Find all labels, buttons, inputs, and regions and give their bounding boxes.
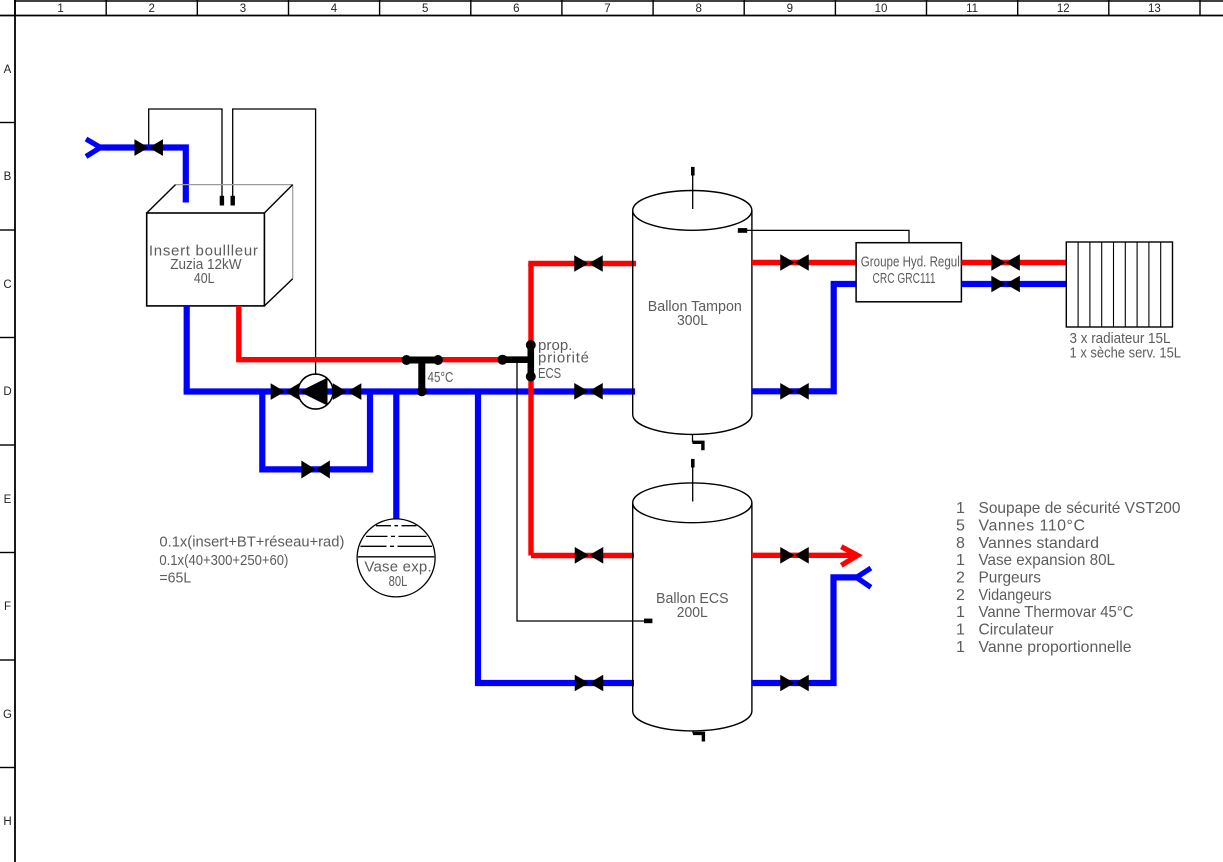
control line valve-to-boiler sensor [149,109,222,198]
svg-text:200L: 200L [677,604,708,621]
valve DHW-in blue [575,675,604,692]
sheet border left vertical line [14,0,16,862]
svg-text:Vidangeurs: Vidangeurs [979,587,1052,604]
svg-text:7: 7 [604,3,610,15]
svg-text:4: 4 [331,3,338,15]
svg-text:2: 2 [956,570,965,587]
DHW tank air vent tip [691,459,695,468]
svg-text:Vannes standard: Vannes standard [979,535,1100,552]
valve before buffer on main blue [574,383,603,400]
svg-text:A: A [4,64,12,76]
sheet border ruler bottom line [0,15,1223,17]
boiler top-right diagonal edge [264,185,292,213]
svg-text:1: 1 [956,622,965,639]
svg-text:45°C: 45°C [428,369,454,386]
svg-text:3: 3 [240,3,246,15]
svg-text:8: 8 [956,535,965,552]
svg-text:Vannes 110°C: Vannes 110°C [979,518,1086,535]
boiler top face back edge (gray) [176,184,293,186]
boiler top-left diagonal edge [147,185,176,213]
svg-text:13: 13 [1148,3,1161,15]
svg-text:1: 1 [57,3,63,15]
buffer tank drain line [692,434,694,442]
hydraulic regulator unit [856,243,961,302]
buffer tank body [633,191,752,435]
circulator pump U1 [298,374,333,409]
row letters A-H [3,64,12,828]
expansion vessel [357,519,435,597]
svg-text:B: B [4,171,12,183]
sheet border top edge [15,0,1223,2]
svg-text:2: 2 [956,587,965,604]
svg-text:300L: 300L [677,312,708,329]
control line boiler-to-pump [233,109,316,375]
svg-text:Purgeurs: Purgeurs [979,570,1042,587]
sensor line buffer tank to regulator [747,230,909,242]
valve buffer-out blue [780,383,809,400]
svg-text:5: 5 [956,518,965,535]
svg-text:Vanne proportionnelle: Vanne proportionnelle [979,639,1132,656]
buffer tank drain hook [693,442,703,450]
boiler sensor stub 2 [231,196,235,206]
svg-text:1: 1 [956,639,965,656]
valve buffer-out red [780,254,809,271]
svg-text:1: 1 [956,500,965,517]
valve cold-inlet blue [780,675,809,692]
svg-text:11: 11 [966,3,978,15]
blue cold water inlet pipe [752,577,858,683]
valve left of pump [271,383,300,400]
DHW tank air vent [692,468,694,502]
red DHW outlet pipe [752,553,853,558]
red branch to buffer tank [528,261,636,266]
svg-text:40L: 40L [194,270,215,287]
blue pipe radiator to regulator [961,281,1066,287]
svg-text:1 x sèche serv. 15L: 1 x sèche serv. 15L [1070,345,1182,362]
ruler column dividers [15,0,1200,16]
svg-text:Soupape de sécurité VST200: Soupape de sécurité VST200 [979,500,1181,517]
svg-text:D: D [3,386,11,398]
left margin row ticks [0,123,15,768]
boiler front face [147,213,265,306]
priority sensor line to DHW tank [517,361,646,621]
network supply Y-tail symbol [86,139,101,157]
valve on supply pipe [134,139,163,156]
cold water inlet Y-tail [856,568,871,587]
svg-text:5: 5 [422,3,428,15]
svg-text:Circulateur: Circulateur [979,622,1055,639]
red pipe buffer to regulator [752,260,856,265]
bill of materials legend [956,500,1181,656]
red flow pipe from boiler bottom [239,306,531,360]
boiler back-right vertical edge (gray) [292,185,294,279]
valve radiator red [991,254,1020,271]
buffer tank air vent [692,175,694,209]
buffer tank sensor tip [738,228,747,233]
red branch to DHW tank [531,553,634,558]
svg-text:C: C [3,279,11,291]
boiler bottom-right diagonal edge [264,279,292,306]
svg-text:80L: 80L [389,573,408,590]
thermostatic valve 45C tee bar [402,355,444,396]
valve on red branch to DHW tank [575,547,604,564]
valve right of pump [333,383,362,400]
svg-text:CRC GRC111: CRC GRC111 [873,270,936,287]
svg-text:Vase expansion 80L: Vase expansion 80L [979,552,1116,569]
svg-text:12: 12 [1057,3,1070,15]
svg-text:10: 10 [875,3,888,15]
radiator [1066,242,1172,327]
priority sensor tip [644,619,652,624]
svg-text:6: 6 [513,3,519,15]
buffer tank air vent tip [691,167,695,176]
svg-text:9: 9 [787,3,793,15]
pump bypass loop pipe [262,392,370,470]
blue pipe buffer to regulator [752,284,856,391]
ruler column numbers 1-13 [57,3,1160,15]
svg-text:E: E [4,494,12,506]
svg-text:1: 1 [956,552,965,569]
valve on red branch to buffer [574,255,603,272]
DHW tank body [633,483,752,731]
main blue return line [184,388,635,394]
DHW outlet arrow [841,547,857,566]
svg-text:Vanne Thermovar 45°C: Vanne Thermovar 45°C [979,604,1134,621]
valve radiator blue [991,276,1020,293]
blue pipe to expansion vessel [393,392,399,523]
svg-text:ECS: ECS [538,365,561,382]
DHW tank drain line [692,731,694,734]
blue cold feed pipe to DHW tank [478,392,634,684]
svg-text:0.1x(40+300+250+60): 0.1x(40+300+250+60) [159,552,288,569]
svg-text:=65L: =65L [159,570,191,587]
svg-text:priorité: priorité [538,350,589,367]
boiler sensor stub 1 [220,196,224,206]
svg-text:0.1x(insert+BT+réseau+rad): 0.1x(insert+BT+réseau+rad) [159,534,344,551]
blue supply pipe to boiler top [98,148,186,203]
red riser pipe [528,264,533,556]
svg-text:F: F [4,601,11,613]
svg-text:2: 2 [148,3,154,15]
svg-text:G: G [3,709,12,721]
svg-text:1: 1 [956,604,965,621]
svg-text:Groupe Hyd. Regul: Groupe Hyd. Regul [861,254,960,271]
DHW tank drain hook [693,733,703,741]
red pipe regulator to radiator [961,260,1066,265]
blue return pipe from boiler bottom [184,306,190,392]
valve DHW-out red [780,547,809,564]
svg-text:H: H [3,816,11,828]
valve on bypass [301,461,330,479]
svg-text:8: 8 [695,3,701,15]
proportional priority valve [498,340,536,382]
